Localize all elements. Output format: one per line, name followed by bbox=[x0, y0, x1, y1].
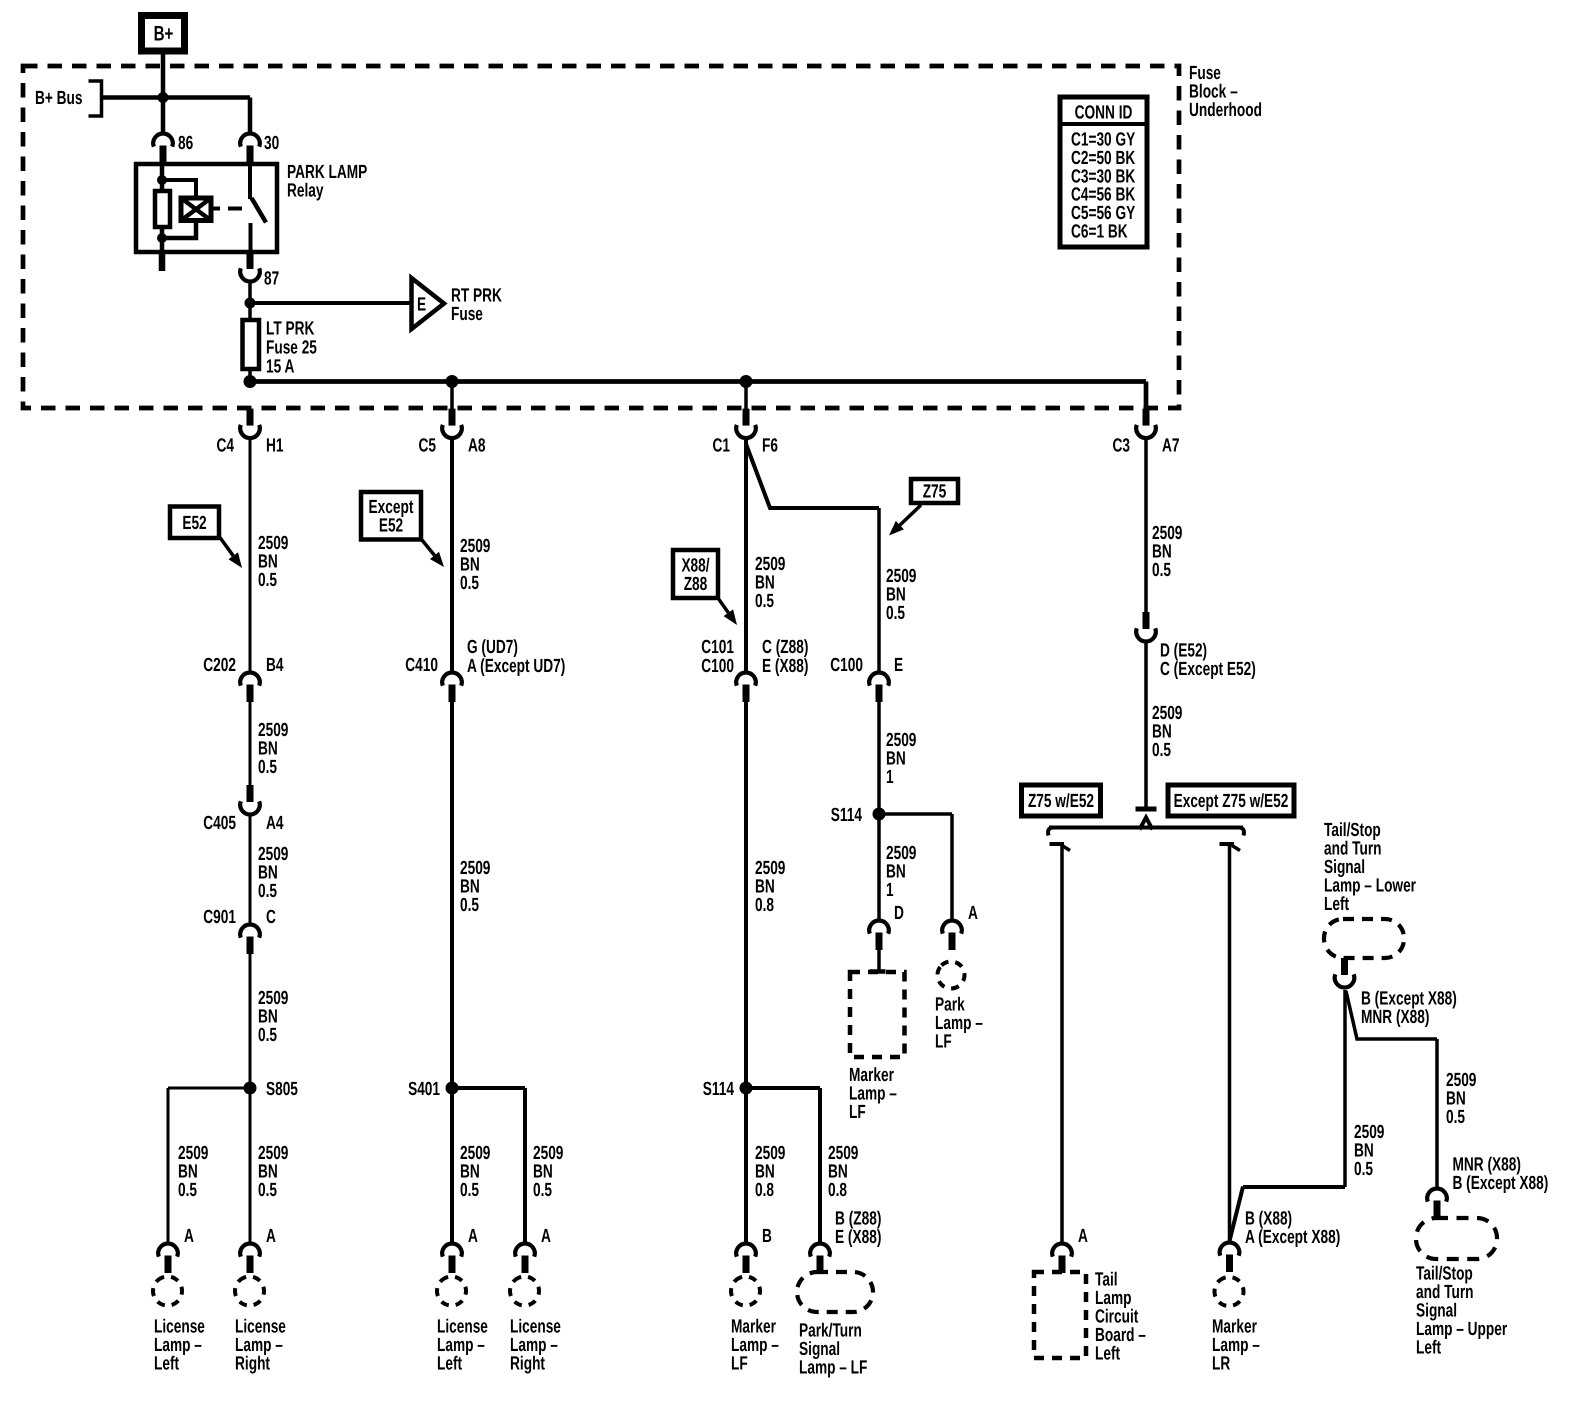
svg-text:Relay: Relay bbox=[287, 181, 324, 202]
svg-text:A (Except X88): A (Except X88) bbox=[1245, 1227, 1340, 1248]
svg-text:30: 30 bbox=[264, 133, 279, 154]
svg-text:A: A bbox=[468, 1226, 478, 1247]
svg-text:0.5: 0.5 bbox=[178, 1180, 197, 1201]
svg-text:LF: LF bbox=[849, 1102, 866, 1123]
svg-text:A4: A4 bbox=[266, 813, 284, 834]
svg-text:A (Except UD7): A (Except UD7) bbox=[467, 656, 565, 677]
svg-text:C (Except E52): C (Except E52) bbox=[1160, 659, 1256, 680]
svg-text:C: C bbox=[266, 907, 276, 928]
svg-text:0.5: 0.5 bbox=[460, 1180, 479, 1201]
svg-text:0.5: 0.5 bbox=[460, 573, 479, 594]
svg-text:E52: E52 bbox=[182, 513, 206, 534]
svg-text:0.5: 0.5 bbox=[755, 591, 774, 612]
svg-text:1: 1 bbox=[886, 880, 894, 901]
svg-text:0.5: 0.5 bbox=[460, 895, 479, 916]
svg-text:B (Except X88): B (Except X88) bbox=[1453, 1173, 1549, 1194]
svg-text:Left: Left bbox=[154, 1354, 180, 1375]
svg-text:Right: Right bbox=[510, 1354, 545, 1375]
svg-text:0.5: 0.5 bbox=[533, 1180, 552, 1201]
svg-text:E (X88): E (X88) bbox=[762, 656, 808, 677]
svg-text:A: A bbox=[184, 1226, 194, 1247]
svg-text:0.5: 0.5 bbox=[1152, 740, 1171, 761]
svg-text:Z88: Z88 bbox=[684, 574, 708, 595]
svg-text:S114: S114 bbox=[703, 1079, 735, 1100]
svg-text:C901: C901 bbox=[203, 907, 236, 928]
svg-text:A: A bbox=[266, 1226, 276, 1247]
svg-text:LF: LF bbox=[731, 1354, 748, 1375]
svg-text:MNR (X88): MNR (X88) bbox=[1361, 1007, 1429, 1028]
svg-text:0.5: 0.5 bbox=[1446, 1107, 1465, 1128]
svg-text:C202: C202 bbox=[203, 655, 236, 676]
svg-text:C405: C405 bbox=[203, 813, 236, 834]
svg-text:0.5: 0.5 bbox=[258, 757, 277, 778]
svg-text:Left: Left bbox=[437, 1354, 463, 1375]
svg-text:A: A bbox=[1078, 1226, 1088, 1247]
svg-text:A8: A8 bbox=[468, 436, 486, 457]
svg-text:C100: C100 bbox=[830, 655, 863, 676]
svg-text:C100: C100 bbox=[701, 656, 734, 677]
svg-text:Lamp – LF: Lamp – LF bbox=[799, 1358, 867, 1379]
svg-text:0.5: 0.5 bbox=[258, 881, 277, 902]
svg-text:Left: Left bbox=[1416, 1338, 1442, 1359]
svg-text:C6=1 BK: C6=1 BK bbox=[1071, 222, 1128, 243]
svg-text:86: 86 bbox=[178, 133, 193, 154]
svg-text:0.5: 0.5 bbox=[886, 603, 905, 624]
svg-text:0.5: 0.5 bbox=[1354, 1159, 1373, 1180]
svg-text:C101: C101 bbox=[701, 637, 734, 658]
svg-text:Right: Right bbox=[235, 1354, 270, 1375]
svg-text:S805: S805 bbox=[266, 1079, 298, 1100]
svg-text:A7: A7 bbox=[1162, 436, 1180, 457]
svg-text:C (Z88): C (Z88) bbox=[762, 637, 808, 658]
svg-text:15 A: 15 A bbox=[266, 357, 295, 378]
svg-text:0.5: 0.5 bbox=[258, 570, 277, 591]
svg-text:Fuse: Fuse bbox=[451, 304, 483, 325]
svg-text:F6: F6 bbox=[762, 436, 778, 457]
svg-text:0.5: 0.5 bbox=[258, 1025, 277, 1046]
svg-text:Z75 w/E52: Z75 w/E52 bbox=[1028, 791, 1094, 812]
svg-text:C3: C3 bbox=[1113, 436, 1131, 457]
svg-text:Z75: Z75 bbox=[923, 482, 947, 503]
svg-text:0.8: 0.8 bbox=[755, 895, 774, 916]
svg-text:A: A bbox=[968, 903, 978, 924]
svg-text:G (UD7): G (UD7) bbox=[467, 637, 518, 658]
svg-text:C4: C4 bbox=[217, 436, 235, 457]
svg-text:H1: H1 bbox=[266, 436, 284, 457]
svg-text:LR: LR bbox=[1212, 1354, 1230, 1375]
svg-text:Left: Left bbox=[1324, 894, 1350, 915]
svg-text:Underhood: Underhood bbox=[1189, 100, 1262, 121]
svg-text:D: D bbox=[894, 903, 904, 924]
svg-text:CONN ID: CONN ID bbox=[1075, 103, 1133, 124]
svg-text:E (X88): E (X88) bbox=[835, 1227, 881, 1248]
svg-text:0.5: 0.5 bbox=[1152, 560, 1171, 581]
svg-text:0.8: 0.8 bbox=[828, 1180, 847, 1201]
svg-text:C410: C410 bbox=[405, 655, 438, 676]
svg-text:C5: C5 bbox=[419, 436, 437, 457]
svg-text:0.8: 0.8 bbox=[755, 1180, 774, 1201]
svg-text:B: B bbox=[762, 1226, 772, 1247]
svg-text:C1: C1 bbox=[713, 436, 731, 457]
svg-text:0.5: 0.5 bbox=[258, 1180, 277, 1201]
svg-text:B4: B4 bbox=[266, 655, 284, 676]
svg-text:B+ Bus: B+ Bus bbox=[35, 88, 83, 109]
svg-text:E52: E52 bbox=[379, 516, 403, 537]
svg-text:LF: LF bbox=[935, 1032, 952, 1053]
svg-text:Left: Left bbox=[1095, 1344, 1121, 1365]
svg-text:E: E bbox=[894, 655, 903, 676]
svg-text:E: E bbox=[417, 295, 426, 316]
svg-text:Except Z75 w/E52: Except Z75 w/E52 bbox=[1174, 791, 1289, 812]
svg-text:S401: S401 bbox=[408, 1079, 440, 1100]
svg-text:S114: S114 bbox=[831, 805, 863, 826]
svg-text:1: 1 bbox=[886, 767, 894, 788]
svg-text:LT PRK: LT PRK bbox=[266, 319, 315, 340]
svg-text:B+: B+ bbox=[154, 23, 174, 46]
svg-text:Fuse 25: Fuse 25 bbox=[266, 338, 317, 359]
svg-text:A: A bbox=[541, 1226, 551, 1247]
svg-text:87: 87 bbox=[264, 269, 279, 290]
